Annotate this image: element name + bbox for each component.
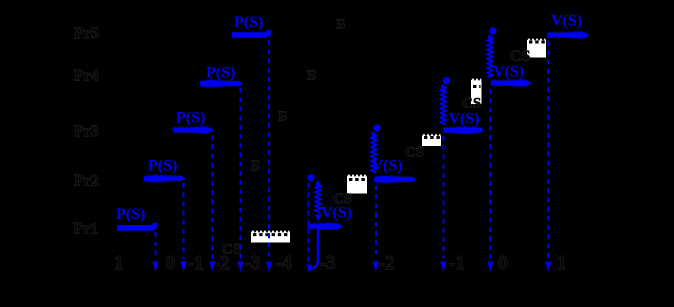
semaphore value -1 bbox=[187, 253, 203, 274]
V(S) bar Pr2 (zigzag) bbox=[374, 176, 416, 182]
semaphore value -4 bbox=[275, 253, 291, 274]
semaphore value -1 (after V) bbox=[449, 253, 465, 274]
timeline t7 arrow bbox=[373, 262, 379, 273]
P(S) label Pr2 bbox=[148, 158, 177, 175]
wake zigzag arrow to Pr4 dot bbox=[440, 83, 447, 125]
semaphore value -3 bbox=[244, 253, 260, 274]
V(S) label Pr3 bbox=[449, 111, 480, 128]
semaphore value 1 bbox=[114, 253, 124, 274]
blocked label B Pr5 bbox=[336, 18, 345, 33]
svg-text:P(S): P(S) bbox=[116, 206, 145, 223]
V(S) bar Pr4 (zigzag) bbox=[491, 80, 531, 86]
svg-text:V(S): V(S) bbox=[551, 13, 582, 30]
svg-text:-4: -4 bbox=[275, 253, 291, 274]
semaphore value 1 (final) bbox=[557, 253, 567, 274]
svg-text:-1: -1 bbox=[449, 253, 465, 274]
CS label Pr1 bbox=[222, 242, 241, 258]
semaphore value -3 (after V) bbox=[319, 253, 335, 274]
CS box Pr2 bbox=[347, 174, 367, 194]
CS box Pr1 bbox=[251, 230, 290, 243]
semaphore value -2 bbox=[213, 253, 229, 274]
process label Pr1 bbox=[74, 221, 99, 238]
blocked label B Pr3 bbox=[278, 110, 287, 125]
svg-text:-3: -3 bbox=[319, 253, 335, 274]
blocked label B Pr2 bbox=[251, 159, 260, 174]
svg-text:CS: CS bbox=[462, 96, 481, 112]
svg-text:V(S): V(S) bbox=[493, 63, 524, 80]
svg-text:Pr3: Pr3 bbox=[74, 123, 99, 140]
wake dot Pr3 bbox=[373, 124, 380, 131]
timeline t2 arrow bbox=[180, 262, 186, 273]
P(S) bar Pr3 (zigzag) bbox=[173, 127, 214, 133]
process label Pr2 bbox=[74, 173, 99, 190]
svg-text:Pr1: Pr1 bbox=[74, 221, 99, 238]
P(S) bar Pr4 (zigzag) bbox=[200, 80, 243, 86]
svg-text:V(S): V(S) bbox=[372, 158, 403, 175]
wake dashed line from Pr2 dot bbox=[308, 183, 310, 263]
timeline t3 (Pr3 P) bbox=[212, 135, 214, 259]
timeline t10 (Pr5 V) bbox=[547, 41, 549, 259]
V(S) bar Pr5 (zigzag) bbox=[547, 32, 589, 38]
semaphore value 0 bbox=[166, 253, 176, 274]
svg-text:-1: -1 bbox=[187, 253, 203, 274]
svg-text:0: 0 bbox=[498, 253, 508, 274]
process label Pr3 bbox=[74, 123, 99, 140]
svg-text:Б: Б bbox=[336, 18, 345, 33]
timeline t1 arrow bbox=[152, 262, 158, 273]
timeline t4 (Pr4 P) bbox=[240, 88, 242, 259]
svg-text:P(S): P(S) bbox=[148, 158, 177, 175]
V(S) bar Pr3 (zigzag) bbox=[444, 127, 485, 133]
P(S) label Pr3 bbox=[176, 109, 205, 126]
svg-text:0: 0 bbox=[166, 253, 176, 274]
J-hook timeline Pr1 V bbox=[306, 230, 318, 274]
CS label Pr4 bbox=[462, 96, 481, 112]
P(S) bar Pr2 (zigzag) bbox=[144, 175, 186, 181]
V(S) label Pr2 bbox=[372, 158, 403, 175]
timeline t3 arrow bbox=[209, 262, 215, 273]
process label Pr4 bbox=[74, 68, 99, 85]
timeline t2 (Pr2 P) bbox=[183, 183, 185, 259]
wake zigzag arrow to Pr5 dot bbox=[487, 34, 494, 78]
V(S) label Pr5 bbox=[551, 13, 582, 30]
process label Pr5 bbox=[74, 25, 99, 42]
wake dot Pr2 bbox=[307, 174, 314, 181]
svg-text:-2: -2 bbox=[213, 253, 229, 274]
CS label Pr3 bbox=[405, 145, 424, 161]
svg-text:P(S): P(S) bbox=[206, 65, 235, 82]
CS box Pr5 bbox=[527, 38, 546, 58]
timeline t8 arrow bbox=[440, 262, 446, 273]
timeline t8 (Pr3 V) bbox=[443, 136, 445, 259]
svg-text:V(S): V(S) bbox=[321, 205, 352, 222]
wake zigzag arrow to Pr2 dot bbox=[315, 180, 322, 222]
svg-text:Pr2: Pr2 bbox=[74, 173, 99, 190]
svg-text:-2: -2 bbox=[378, 253, 394, 274]
timeline t1 (Pr1 P) bbox=[155, 232, 157, 259]
CS label Pr2 bbox=[333, 191, 352, 207]
P(S) label Pr4 bbox=[206, 65, 235, 82]
wake dot Pr4 bbox=[443, 77, 450, 84]
CS box Pr4 bbox=[471, 78, 482, 104]
semaphore value -2 (after V) bbox=[378, 253, 394, 274]
timeline t4 arrow bbox=[237, 262, 243, 273]
V(S) label Pr4 bbox=[493, 63, 524, 80]
svg-text:V(S): V(S) bbox=[449, 111, 480, 128]
svg-text:-3: -3 bbox=[244, 253, 260, 274]
svg-text:1: 1 bbox=[114, 253, 124, 274]
timeline t5 (Pr5 P) bbox=[268, 40, 270, 259]
CS label Pr5 bbox=[510, 48, 531, 65]
svg-text:CS: CS bbox=[405, 145, 424, 161]
timeline t9 (Pr4 V) bbox=[489, 89, 491, 259]
P(S) bar Pr5 (solid) bbox=[232, 30, 271, 38]
timeline t10 arrow bbox=[545, 262, 551, 273]
svg-text:P(S): P(S) bbox=[234, 14, 263, 31]
wake zigzag arrow to Pr3 dot bbox=[370, 131, 377, 173]
svg-text:Б: Б bbox=[251, 159, 260, 174]
V(S) bar Pr1 (zigzag) bbox=[308, 223, 343, 229]
CS box Pr3 bbox=[422, 134, 441, 147]
P(S) bar Pr1 (solid) bbox=[117, 223, 158, 231]
P(S) label Pr1 bbox=[116, 206, 145, 223]
svg-text:P(S): P(S) bbox=[176, 109, 205, 126]
wake dot Pr5 bbox=[489, 27, 496, 34]
P(S) label Pr5 bbox=[234, 14, 263, 31]
svg-text:1: 1 bbox=[557, 253, 567, 274]
V(S) label Pr1 bbox=[321, 205, 352, 222]
svg-text:Б: Б bbox=[307, 69, 316, 84]
semaphore value 0 (after V) bbox=[498, 253, 508, 274]
timeline t5 arrow bbox=[266, 262, 272, 273]
blocked label B Pr4 bbox=[307, 69, 316, 84]
svg-text:Pr5: Pr5 bbox=[74, 25, 99, 42]
timeline t7 (Pr2 V) bbox=[375, 185, 377, 259]
svg-text:Б: Б bbox=[278, 110, 287, 125]
timeline t9 arrow bbox=[487, 262, 493, 273]
svg-text:Pr4: Pr4 bbox=[74, 68, 99, 85]
